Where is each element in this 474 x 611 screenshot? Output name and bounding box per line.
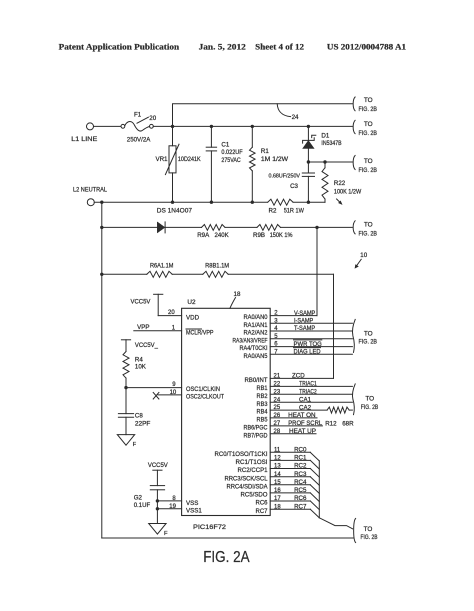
svg-text:R6A1.1M: R6A1.1M xyxy=(150,262,173,269)
svg-text:RC2: RC2 xyxy=(294,463,307,470)
svg-text:RA3/AN3/VREF: RA3/AN3/VREF xyxy=(233,337,268,344)
svg-text:DIAG LED: DIAG LED xyxy=(294,348,321,355)
svg-text:ZCD: ZCD xyxy=(292,373,305,380)
resistor R9B 150K 1% xyxy=(257,225,281,231)
svg-text:U2: U2 xyxy=(187,299,196,306)
resistor R6A 1.1M xyxy=(147,271,172,277)
svg-text:Jan. 5, 2012: Jan. 5, 2012 xyxy=(199,43,246,52)
svg-text:CA1: CA1 xyxy=(299,397,312,404)
leader hook for D1 label xyxy=(312,135,316,137)
to-fig-2b brace 2 (main line) xyxy=(353,120,355,133)
wire: sense line with DS diode xyxy=(102,226,158,228)
svg-text:RA0/AN5: RA0/AN5 xyxy=(244,353,269,360)
svg-text:R8B1.1M: R8B1.1M xyxy=(205,262,229,269)
svg-text:F: F xyxy=(133,442,137,448)
varistor VR1 10D241K xyxy=(172,126,174,145)
svg-text:RC6: RC6 xyxy=(294,495,307,502)
resistor R8B 1.1M xyxy=(203,271,228,277)
wire: top rail from fuse junction to first TO FIG.2B xyxy=(173,104,353,127)
svg-text:IN5347B: IN5347B xyxy=(321,140,341,147)
svg-text:RC6: RC6 xyxy=(256,500,269,507)
svg-text:VSS1: VSS1 xyxy=(186,507,202,514)
svg-text:VPP: VPP xyxy=(137,324,149,331)
resistor R1 1M 1/2W xyxy=(251,126,253,147)
svg-text:10: 10 xyxy=(170,390,177,396)
svg-text:VR1: VR1 xyxy=(155,156,168,163)
svg-text:I-SAMP: I-SAMP xyxy=(294,317,313,324)
svg-text:D1: D1 xyxy=(321,132,329,139)
power symbol VCC5V_ for R4 xyxy=(121,339,130,341)
svg-text:US 2012/0004788 A1: US 2012/0004788 A1 xyxy=(327,43,406,52)
wire OSC2/CLKOUT pin 10 with no-connect X xyxy=(158,394,182,396)
svg-text:RA1/AN1: RA1/AN1 xyxy=(244,322,269,329)
svg-text:R9B: R9B xyxy=(253,232,265,239)
svg-text:100K 1/2W: 100K 1/2W xyxy=(334,188,361,195)
bus diagonal RC0 xyxy=(310,452,319,461)
svg-text:FIG. 2B: FIG. 2B xyxy=(361,404,379,411)
svg-text:PWR TOG: PWR TOG xyxy=(294,341,322,348)
svg-text:Sheet 4 of 12: Sheet 4 of 12 xyxy=(255,43,304,52)
svg-text:C3: C3 xyxy=(290,183,298,190)
resistor R4 10K xyxy=(125,340,127,352)
svg-text:240K: 240K xyxy=(215,232,230,239)
ground for G2 xyxy=(149,524,166,535)
svg-text:TO: TO xyxy=(364,97,373,104)
fuse F1 xyxy=(121,124,125,128)
svg-text:150K 1%: 150K 1% xyxy=(270,232,293,239)
bus diagonal RC3 xyxy=(310,477,319,486)
svg-text:VCC5V: VCC5V xyxy=(131,298,152,305)
svg-text:RRC4/SDI/SDA: RRC4/SDI/SDA xyxy=(227,483,269,490)
svg-text:RC0/T1OSO/T1CKI: RC0/T1OSO/T1CKI xyxy=(215,451,268,458)
ground for C8 xyxy=(117,435,134,446)
svg-text:HEAT UP: HEAT UP xyxy=(289,428,316,435)
svg-text:1M 1/2W: 1M 1/2W xyxy=(261,156,288,163)
svg-text:F: F xyxy=(164,531,168,537)
to-fig-2b brace 4 (sense line) xyxy=(353,221,355,234)
svg-text:VSS: VSS xyxy=(186,500,198,507)
bus diagonal RC7 xyxy=(310,509,319,518)
bus diagonal RC1 xyxy=(310,460,319,469)
svg-text:RC7: RC7 xyxy=(256,508,269,515)
svg-text:10: 10 xyxy=(360,252,367,259)
svg-text:RA4/T0CKI: RA4/T0CKI xyxy=(240,345,268,352)
terminal L1 LINE xyxy=(87,123,94,130)
to-fig-2b brace 6 (triac signals) xyxy=(352,384,355,415)
svg-text:FIG. 2A: FIG. 2A xyxy=(203,549,250,566)
svg-text:TO: TO xyxy=(364,158,373,165)
svg-text:OSC2/CLKOUT: OSC2/CLKOUT xyxy=(186,394,224,401)
svg-text:RB3: RB3 xyxy=(257,401,269,408)
wire: main line after fuse to second TO FIG.2B xyxy=(153,125,352,127)
wire VSS1 pin 19 xyxy=(157,508,181,510)
wire: left vertical from L2 down to bottom rail xyxy=(101,202,103,538)
svg-text:R2: R2 xyxy=(269,208,277,215)
svg-text:TRIAC1: TRIAC1 xyxy=(299,381,317,388)
svg-text:FIG. 2B: FIG. 2B xyxy=(359,231,378,238)
bus diagonal RC4 xyxy=(310,485,319,494)
wire L1 to fuse xyxy=(94,125,121,127)
resistor R9A 240K xyxy=(202,225,226,231)
diode DS 1N4O07 xyxy=(157,222,165,233)
svg-text:FIG. 2B: FIG. 2B xyxy=(359,338,378,345)
to-fig-2b brace 7 (bottom) xyxy=(354,519,356,543)
svg-text:OSC1/CLKIN: OSC1/CLKIN xyxy=(186,386,220,393)
svg-text:RB0/INT: RB0/INT xyxy=(245,377,268,384)
wire VDD pin 20 xyxy=(158,315,181,317)
svg-text:C1: C1 xyxy=(221,142,229,149)
svg-text:FIG. 2B: FIG. 2B xyxy=(359,167,378,174)
wire: neutral rail xyxy=(94,201,267,203)
capacitor C1 0.022UF 275VAC xyxy=(210,126,212,147)
svg-text:RRC3/SCK/SCL: RRC3/SCK/SCL xyxy=(225,475,269,482)
wire VPP to MCLR pin 1 xyxy=(134,330,182,332)
svg-text:R9A: R9A xyxy=(197,232,210,239)
svg-text:L1 LINE: L1 LINE xyxy=(71,136,97,143)
svg-text:L2 NEUTRAL: L2 NEUTRAL xyxy=(73,186,108,193)
svg-text:TO: TO xyxy=(364,526,373,533)
svg-text:VCC5V_: VCC5V_ xyxy=(135,342,159,349)
svg-text:10D241K: 10D241K xyxy=(178,156,202,163)
svg-text:24: 24 xyxy=(292,114,299,121)
svg-text:19: 19 xyxy=(169,504,176,510)
svg-text:RC4: RC4 xyxy=(294,479,307,486)
microcontroller U2 PIC16F72 box xyxy=(182,308,271,515)
bus diagonal RC2 xyxy=(310,469,319,478)
svg-text:FIG. 2B: FIG. 2B xyxy=(359,130,378,137)
svg-text:T-SAMP: T-SAMP xyxy=(294,325,315,332)
wire: vertical from divider line to ZCD pin xyxy=(333,274,335,378)
svg-text:10K: 10K xyxy=(135,364,147,371)
svg-text:RC2/CCP1: RC2/CCP1 xyxy=(238,467,269,474)
svg-text:Patent Application Publication: Patent Application Publication xyxy=(59,43,180,52)
capacitor G2 0.1UF xyxy=(150,485,164,487)
svg-text:R1: R1 xyxy=(261,148,269,155)
svg-text:PIC16F72: PIC16F72 xyxy=(193,524,227,531)
svg-text:250V/2A: 250V/2A xyxy=(127,137,151,144)
bus diagonal RC6 xyxy=(310,501,319,510)
svg-text:RC1: RC1 xyxy=(294,455,307,462)
svg-text:0.68UF/250V: 0.68UF/250V xyxy=(269,173,301,179)
svg-text:TRIAC2: TRIAC2 xyxy=(299,389,317,396)
svg-text:C8: C8 xyxy=(135,413,143,420)
svg-text:FIG. 2B: FIG. 2B xyxy=(361,534,378,541)
svg-text:RB6/PGC: RB6/PGC xyxy=(244,425,268,432)
overline on MCLR xyxy=(186,328,202,330)
svg-text:RA0/AN0: RA0/AN0 xyxy=(244,314,269,321)
svg-text:FIG. 2B: FIG. 2B xyxy=(359,106,378,113)
svg-text:TO: TO xyxy=(364,330,373,337)
svg-text:G2: G2 xyxy=(134,495,143,502)
wire: bottom rail to last TO FIG.2B xyxy=(102,537,354,539)
svg-text:RC0: RC0 xyxy=(294,446,307,453)
resistor R2 51R 1W on neutral rail xyxy=(268,199,293,205)
to-fig-2b brace 1 (top rail) xyxy=(353,97,355,111)
svg-text:0.022UF: 0.022UF xyxy=(221,149,242,156)
svg-text:CA2: CA2 xyxy=(299,404,312,411)
zener diode D1 IN5347B xyxy=(307,126,309,140)
svg-text:RC5: RC5 xyxy=(294,487,307,494)
svg-text:20: 20 xyxy=(168,310,175,316)
svg-text:MCLR/VPP: MCLR/VPP xyxy=(186,329,214,336)
svg-text:R4: R4 xyxy=(135,357,143,364)
svg-text:RC5/SDO: RC5/SDO xyxy=(241,492,268,499)
svg-text:18: 18 xyxy=(234,291,241,298)
terminal L2 NEUTRAL xyxy=(87,199,94,206)
svg-text:F1: F1 xyxy=(134,111,142,118)
svg-text:RB4: RB4 xyxy=(257,409,269,416)
to-fig-2b brace 5 (analog signals) xyxy=(352,319,355,352)
svg-text:RC1/T1OSI: RC1/T1OSI xyxy=(236,459,268,466)
svg-text:0.1UF: 0.1UF xyxy=(134,502,151,509)
label 24 with leader arc xyxy=(277,104,290,117)
svg-text:RB1: RB1 xyxy=(257,385,269,392)
wire: divider line R6A R8B xyxy=(102,273,147,275)
svg-text:RC3: RC3 xyxy=(294,471,307,478)
wire: vertical from sense line to V-SAMP pin xyxy=(316,227,318,315)
svg-text:RB7/PGD: RB7/PGD xyxy=(244,432,268,439)
svg-text:PROF SCRL: PROF SCRL xyxy=(288,420,323,427)
svg-text:RA2/AN2: RA2/AN2 xyxy=(244,330,269,337)
svg-text:TO: TO xyxy=(365,396,374,403)
svg-text:RB5: RB5 xyxy=(257,417,269,424)
leader arrow near R22 xyxy=(337,199,342,204)
svg-text:22PF: 22PF xyxy=(135,421,151,428)
wire: node between D1, C3, R22 to third TO FIG.2B xyxy=(308,161,352,163)
svg-text:VDD: VDD xyxy=(186,314,200,321)
svg-text:TO: TO xyxy=(364,221,373,228)
svg-text:R12: R12 xyxy=(325,420,337,427)
svg-text:TO: TO xyxy=(364,121,373,128)
svg-text:VCC5V: VCC5V xyxy=(148,462,169,469)
svg-text:20: 20 xyxy=(149,115,156,122)
resistor R22 100K 1/2W xyxy=(324,162,326,168)
resistor R12 68R on CA2 wire xyxy=(270,409,327,411)
svg-text:RC7: RC7 xyxy=(294,503,307,510)
wire: RC bus vertical xyxy=(318,461,320,518)
svg-text:RB2: RB2 xyxy=(257,393,269,400)
svg-text:R22: R22 xyxy=(334,180,346,187)
wire VSS pin 8 xyxy=(157,500,181,502)
svg-text:DS 1N4O07: DS 1N4O07 xyxy=(157,208,193,215)
bus diagonal RC5 xyxy=(310,493,319,502)
capacitor C8 22PF xyxy=(118,413,133,415)
svg-text:68R: 68R xyxy=(342,420,354,427)
svg-text:HEAT ON: HEAT ON xyxy=(288,412,315,419)
capacitor C3 0.68UF/250V xyxy=(307,162,309,173)
svg-text:275VAC: 275VAC xyxy=(221,157,241,164)
to-fig-2b brace 3 (zener node) xyxy=(353,156,355,170)
wire OSC1/CLKIN pin 9 xyxy=(126,387,182,389)
svg-text:51R 1W: 51R 1W xyxy=(284,208,304,215)
svg-text:V-SAMP: V-SAMP xyxy=(294,310,315,317)
wire: RC bus funnel to last brace xyxy=(319,518,352,529)
